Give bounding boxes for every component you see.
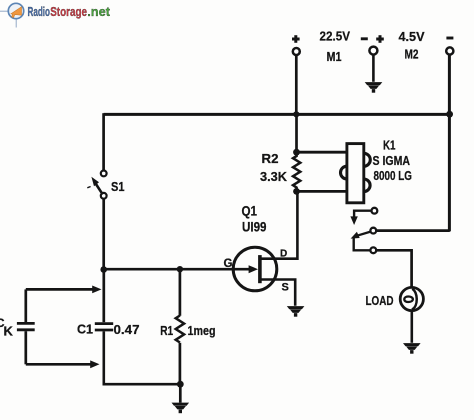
battery M1 plus sign xyxy=(292,35,300,43)
wire relay NO contact to load xyxy=(376,250,411,287)
relay K1 coil xyxy=(340,153,370,191)
node bus right battery xyxy=(446,111,453,118)
wire S1 top drop xyxy=(102,113,105,170)
resistor R2 xyxy=(293,152,300,191)
terminal M1 plus xyxy=(293,48,300,55)
svg-text:S IGMA: S IGMA xyxy=(373,153,411,168)
logo icon megaphone xyxy=(11,7,22,18)
svg-text:S1: S1 xyxy=(111,179,125,194)
sensor K plates xyxy=(17,322,35,325)
wire bus to R2 xyxy=(295,114,298,152)
svg-text:D: D xyxy=(280,249,287,260)
relay actuation arrow xyxy=(350,216,357,225)
wire gate xyxy=(104,268,250,271)
node gate xyxy=(100,266,107,273)
svg-text:8000 LG: 8000 LG xyxy=(374,168,413,183)
node R2 top xyxy=(293,149,300,156)
svg-text:UI99: UI99 xyxy=(242,220,267,235)
svg-text:G: G xyxy=(224,258,233,270)
relay armature arrow xyxy=(351,232,360,239)
resistor R1 xyxy=(176,316,184,343)
svg-text:4.5V: 4.5V xyxy=(399,29,425,44)
wire load to ground xyxy=(410,311,413,343)
svg-text:R1: R1 xyxy=(160,323,173,338)
svg-text:Radio: Radio xyxy=(28,4,51,19)
node R1 top xyxy=(177,266,183,272)
relay armature corner wire xyxy=(354,238,371,251)
svg-text:Storage: Storage xyxy=(50,4,87,19)
wire S1 to gate node xyxy=(102,199,105,271)
svg-text:1meg: 1meg xyxy=(188,323,216,338)
svg-text:K1: K1 xyxy=(383,138,396,153)
svg-text:S: S xyxy=(282,282,289,294)
svg-text:0.47: 0.47 xyxy=(114,322,140,337)
arrow K bottom xyxy=(90,360,99,368)
relay NO contact xyxy=(370,247,376,253)
battery M2 plus sign xyxy=(376,35,384,43)
wire relay common contact to rail xyxy=(376,229,450,232)
svg-text:K: K xyxy=(4,324,14,339)
wire K top xyxy=(26,288,93,291)
terminal M2 minus xyxy=(446,47,453,54)
wire R1 bottom lead xyxy=(179,343,182,384)
arrow K top xyxy=(92,286,101,294)
svg-text:22.5V: 22.5V xyxy=(320,29,351,44)
wire K left lower xyxy=(24,331,27,364)
battery M1 minus sign xyxy=(361,37,368,40)
lamp LOAD xyxy=(400,287,423,310)
svg-text:Q1: Q1 xyxy=(242,204,258,219)
svg-text:3.3K: 3.3K xyxy=(260,169,288,184)
transistor Q1 channel bar xyxy=(258,255,262,283)
node R2 bottom xyxy=(293,188,300,195)
wire gate node to C1 xyxy=(102,270,105,323)
svg-text:LOAD: LOAD xyxy=(366,293,394,308)
svg-text:R2: R2 xyxy=(262,151,279,166)
logo icon circle xyxy=(8,3,23,18)
relay NC contact xyxy=(354,208,377,217)
ground source xyxy=(287,306,305,317)
wire M2 minus rail xyxy=(448,55,451,232)
relay armature blade xyxy=(355,232,370,237)
svg-text:.net: .net xyxy=(87,4,110,19)
wire ground stub xyxy=(179,384,182,402)
wire R2 bottom to relay coil xyxy=(297,190,347,193)
ground load xyxy=(403,343,421,354)
node R1 bottom xyxy=(177,381,184,388)
capacitor C1 xyxy=(95,322,113,325)
node bus left battery xyxy=(293,111,299,117)
ground battery common xyxy=(365,82,383,93)
wire R1 top lead xyxy=(179,269,182,316)
wire drain xyxy=(260,191,298,258)
switch S1 xyxy=(87,171,124,199)
wire C1 to bottom rail xyxy=(104,331,181,384)
relay K1 core xyxy=(347,144,364,203)
transistor Q1 gate arrow xyxy=(249,265,258,273)
logo crosshair xyxy=(0,11,16,27)
wire K bottom xyxy=(26,363,91,366)
wire M1 minus drop xyxy=(372,55,375,82)
svg-text:M2: M2 xyxy=(405,47,419,62)
relay common contact xyxy=(370,228,376,234)
wire source xyxy=(260,280,296,306)
battery M2 minus sign xyxy=(446,37,453,40)
svg-text:M1: M1 xyxy=(327,49,342,64)
wire K left upper xyxy=(24,289,27,322)
transistor Q1 body xyxy=(233,247,277,291)
terminal M1M2 common xyxy=(369,47,377,55)
wire top bus xyxy=(104,113,451,116)
wire M1 plus drop xyxy=(295,55,298,116)
svg-text:C1: C1 xyxy=(77,322,93,337)
ground bottom rail xyxy=(172,403,190,414)
wire R2 top to relay coil xyxy=(297,151,347,154)
